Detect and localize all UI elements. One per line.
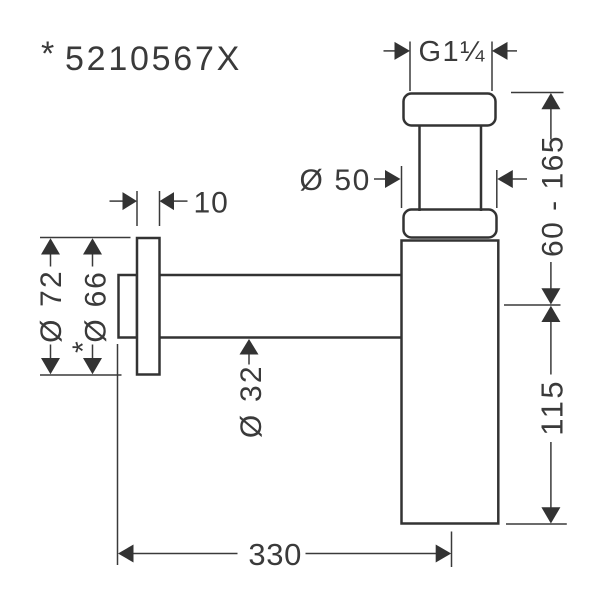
wall pipe stub (119, 275, 138, 338)
lower flange (rounded) (404, 210, 497, 238)
dimension G1 1/4 (384, 42, 518, 92)
svg-text:*: * (67, 341, 100, 353)
part number label * 5210567X (41, 35, 242, 78)
vertical pipe between flanges (420, 124, 482, 211)
dimension diameter 72 (40, 238, 131, 376)
svg-text:Ø 72: Ø 72 (35, 269, 68, 343)
wall flange (137, 238, 160, 375)
svg-text:Ø 66: Ø 66 (80, 270, 113, 342)
dimension 10 (110, 191, 188, 226)
svg-text:Ø 32: Ø 32 (235, 364, 268, 438)
siphon body cup (402, 241, 499, 524)
dimension 330 (118, 344, 452, 567)
svg-text:10: 10 (194, 186, 229, 219)
dimension 115 (506, 321, 567, 524)
svg-text:60 - 165: 60 - 165 (537, 135, 570, 257)
svg-text:*: * (41, 35, 54, 73)
dimension diameter 66 (92, 254, 94, 359)
dimension 60 - 165 (511, 93, 564, 291)
horizontal outlet pipe (158, 275, 402, 338)
svg-text:115: 115 (535, 379, 570, 436)
top flange (rounded) (404, 94, 496, 126)
svg-text:G1¼: G1¼ (419, 36, 486, 68)
svg-text:Ø 50: Ø 50 (300, 164, 371, 197)
svg-text:5210567X: 5210567X (65, 40, 242, 78)
dimension diameter 32 (240, 339, 259, 355)
svg-text:330: 330 (248, 537, 302, 572)
tick at pipe axis (504, 304, 561, 306)
